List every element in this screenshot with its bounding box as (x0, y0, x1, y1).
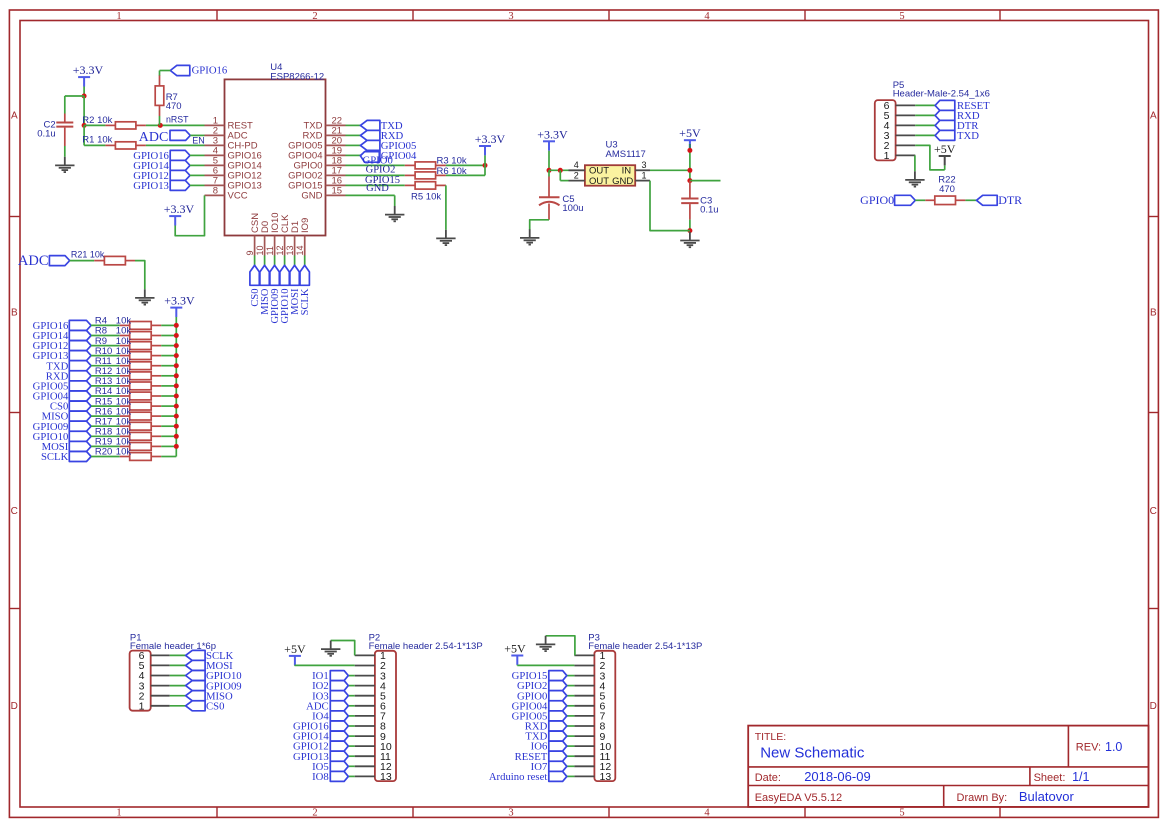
net flag GPIO12 (U4 left) (170, 170, 190, 180)
P3 pin 6 (574, 705, 594, 707)
svg-text:D: D (1150, 701, 1157, 712)
wire GPIO14 flag to pin (190, 164, 205, 166)
svg-text:R5 10k: R5 10k (411, 191, 441, 202)
U3 pin 1 GND (635, 180, 650, 182)
title block (748, 726, 1148, 807)
wire R20 to rail (161, 456, 176, 458)
wire R17 to rail (161, 425, 176, 427)
wire ADC to R21 (70, 260, 95, 262)
node junction rail row 1 (174, 323, 179, 328)
resistor R18 (120, 435, 130, 437)
P5 pin 5 (896, 114, 916, 116)
svg-text:12: 12 (275, 245, 285, 255)
wire bank +3.3V rail (175, 325, 177, 456)
svg-text:+3.3V: +3.3V (164, 294, 195, 308)
net flag TXD (P3) (567, 735, 575, 737)
resistor R7 (159, 75, 161, 86)
wire R12 to rail (161, 375, 176, 377)
wire +5V to P3 pin2 (516, 664, 518, 667)
P2 pin 13 (355, 775, 375, 777)
wire pin18 GPIO0 to R3 (346, 164, 405, 166)
svg-text:GPIO0: GPIO0 (860, 193, 894, 207)
svg-text:8: 8 (213, 185, 218, 196)
P2 pin 11 (355, 755, 375, 757)
svg-text:Drawn By:: Drawn By: (957, 792, 1008, 804)
svg-text:5: 5 (899, 11, 904, 22)
wire R1 to U4 pin3 (146, 144, 205, 146)
wire GPIO16 flag to pin (190, 154, 205, 156)
node junction rail row 12 (174, 434, 179, 439)
svg-text:GPIO13: GPIO13 (133, 180, 169, 192)
net flag MISO (P1) (170, 695, 186, 697)
P2 pin 12 (355, 765, 375, 767)
svg-text:Date:: Date: (755, 772, 781, 784)
wire R13 to rail (161, 385, 176, 387)
P3 pin 7 (574, 715, 594, 717)
svg-text:REV:: REV: (1076, 742, 1101, 754)
P2 pin 5 (355, 695, 375, 697)
P3 pin 8 (574, 725, 594, 727)
resistor R5 (405, 184, 415, 186)
U4 pin 4 GPIO16 (205, 154, 225, 156)
svg-text:OUT: OUT (589, 176, 609, 187)
wire pin17 GPIO02 to R6 (346, 174, 405, 176)
svg-text:13: 13 (380, 771, 392, 783)
P3 pin 4 (574, 685, 594, 687)
svg-text:2: 2 (312, 11, 317, 22)
svg-text:Bulatovor: Bulatovor (1019, 789, 1075, 804)
net flag IO7 (P3) (567, 765, 575, 767)
svg-text:1: 1 (642, 171, 647, 181)
resistor R21 (94, 260, 104, 262)
wire R10 to rail (161, 355, 176, 357)
svg-text:EasyEDA V5.5.12: EasyEDA V5.5.12 (755, 792, 842, 804)
svg-text:EN: EN (192, 136, 205, 146)
svg-text:+3.3V: +3.3V (475, 132, 506, 146)
P3 pin 3 (574, 675, 594, 677)
node junction rail row 5 (174, 363, 179, 368)
svg-text:AMS1117: AMS1117 (606, 149, 646, 160)
wire R16 to rail (161, 415, 176, 417)
wire pin16 GPIO15 to R5 (346, 184, 405, 186)
ground (P2 pin1) (330, 641, 332, 649)
wire R15 to rail (161, 405, 176, 407)
net flag CS0 (U4 bottom) (250, 265, 259, 285)
svg-text:+3.3V: +3.3V (73, 63, 104, 77)
resistor R8 (120, 335, 130, 337)
net flag SCLK (U4 bottom) (300, 265, 309, 285)
P2 pin 1 (355, 654, 375, 656)
svg-text:13: 13 (600, 771, 612, 783)
net flag GPIO14 (U4 left) (170, 160, 190, 170)
ruler ticks right (1149, 216, 1159, 218)
net flag TXD (P5) (915, 134, 935, 136)
P5 pin 2 (896, 144, 916, 146)
resistor R19 (120, 445, 130, 447)
wire R21 to ground (135, 261, 145, 290)
P1 pin 6 (151, 654, 170, 656)
svg-text:1: 1 (139, 701, 145, 713)
net flag IO8 (P2) (348, 775, 354, 777)
node junction (485,165) (483, 163, 488, 168)
svg-text:R1 10k: R1 10k (82, 135, 112, 146)
ruler ticks bottom (216, 807, 218, 817)
net flag GPIO13 (U4 left) (170, 180, 190, 190)
node junction (690,181) (687, 178, 692, 183)
wire R14 to rail (161, 395, 176, 397)
svg-text:+5V: +5V (679, 126, 701, 140)
node junction (549,170) (547, 168, 552, 173)
svg-text:3: 3 (508, 808, 513, 819)
wire C5 to ground (530, 220, 549, 230)
svg-text:nRST: nRST (166, 115, 189, 125)
net flag GPIO05 (P3) (567, 715, 575, 717)
wire junction down to R2 node (83, 96, 85, 125)
resistor R6 (405, 174, 415, 176)
net flag GPIO14 (P2) (348, 735, 354, 737)
regulator U3 AMS1117 body (585, 165, 635, 186)
P1 pin 1 (151, 705, 170, 707)
net flag RESET (P5) (915, 104, 935, 106)
svg-text:GND: GND (366, 183, 389, 194)
net flag GPIO16 (top) (170, 65, 190, 75)
svg-text:ESP8266-12: ESP8266-12 (270, 72, 324, 83)
svg-text:1: 1 (116, 11, 121, 22)
node junction (84,125) (82, 123, 87, 128)
wire SCLK to R20 (91, 456, 120, 458)
wire U4 pin8 VCC to +3.3V (175, 195, 204, 235)
node junction (690,150) (687, 148, 692, 153)
wire TXD to R11 (91, 365, 120, 367)
wire R4 to rail (161, 324, 176, 326)
net flag RESET (P3) (567, 755, 575, 757)
wire R11 to rail (161, 365, 176, 367)
U4 pin 11 IO10 (274, 236, 276, 256)
svg-text:470: 470 (166, 101, 182, 112)
resistor R2 (105, 124, 115, 126)
svg-text:R20: R20 (95, 447, 112, 458)
svg-text:Arduino reset: Arduino reset (489, 771, 547, 783)
node junction rail row 4 (174, 353, 179, 358)
resistor R15 (120, 405, 130, 407)
svg-text:New Schematic: New Schematic (760, 745, 865, 762)
svg-text:9: 9 (245, 250, 255, 255)
node junction rail row 7 (174, 383, 179, 388)
P2 pin 9 (355, 735, 375, 737)
svg-text:14: 14 (295, 245, 305, 255)
resistor R17 (120, 425, 130, 427)
svg-text:ADC: ADC (139, 130, 169, 145)
net flag GPIO16 (P2) (348, 725, 354, 727)
U4 pin 12 CLK (284, 236, 286, 256)
svg-text:3: 3 (508, 11, 513, 22)
svg-text:+5V: +5V (284, 642, 306, 656)
P3 pin 10 (574, 745, 594, 747)
node junction (690,170) (687, 168, 692, 173)
svg-text:2018-06-09: 2018-06-09 (804, 769, 871, 784)
wire R2 to U4 pin1 (146, 124, 205, 126)
net flag DTR (P5) (915, 124, 935, 126)
wire U3 pin3 to +5V rail (650, 169, 690, 171)
ruler ticks top (216, 10, 218, 21)
P3 pin 11 (574, 755, 594, 757)
wire P5 pin1 to ground (914, 155, 916, 171)
wire R9 to rail (161, 345, 176, 347)
net flag MISO (U4 bottom) (260, 265, 269, 285)
svg-text:SCLK: SCLK (41, 451, 69, 463)
P3 pin 2 (574, 665, 594, 667)
resistor R14 (120, 395, 130, 397)
P2 pin 8 (355, 725, 375, 727)
wire U4 pin 9 to flag (254, 256, 256, 266)
net flag GPIO04 (P3) (567, 705, 575, 707)
ground (P3 pin1) (545, 636, 547, 644)
svg-text:4: 4 (704, 808, 710, 819)
net flag IO5 (P2) (348, 765, 354, 767)
U4 pin 16 GPIO15 (326, 184, 346, 186)
wire R7 to nRST node (159, 116, 161, 125)
wire +3.3V stem to node (484, 155, 486, 165)
svg-text:R2 10k: R2 10k (82, 115, 112, 126)
wire GPIO13 flag to pin (190, 184, 205, 186)
U4 pin 8 VCC (205, 194, 225, 196)
P3 pin 1 (574, 654, 594, 656)
svg-text:D: D (11, 701, 18, 712)
wire U4 pin 10 to flag (264, 256, 266, 266)
net flag GPIO12 (P2) (348, 745, 354, 747)
wire GPIO13 to R10 (91, 355, 120, 357)
ground (C2) (64, 157, 66, 165)
connector P3 body (594, 651, 615, 781)
wire U3 pin1 GND routing (650, 181, 690, 231)
wire node to R2 (84, 124, 105, 126)
net flag GPIO0 (P3) (567, 695, 575, 697)
P2 pin 4 (355, 685, 375, 687)
svg-text:C: C (11, 506, 18, 517)
svg-text:1.0: 1.0 (1105, 740, 1122, 754)
wire GPIO10 to R18 (91, 435, 120, 437)
wire junction to C2 column (65, 95, 84, 97)
wire GPIO14 to R8 (91, 335, 120, 337)
connector P2 body (375, 651, 396, 781)
wire R6 up to +3.3V node (446, 174, 485, 176)
resistor R12 (120, 375, 130, 377)
ground (R21) (144, 289, 146, 297)
wire RXD to R12 (91, 375, 120, 377)
svg-text:IO8: IO8 (312, 771, 329, 783)
net flag RXD (P3) (567, 725, 575, 727)
wire MISO to R16 (91, 415, 120, 417)
ground (P5 pin1) (914, 171, 916, 179)
net flag DTR (R22) (977, 195, 998, 205)
svg-text:R21 10k: R21 10k (71, 249, 105, 259)
wire +3.3V stem down (83, 87, 85, 97)
node junction rail row 11 (174, 424, 179, 429)
svg-text:GPIO16: GPIO16 (192, 64, 228, 76)
net flag IO6 (P3) (567, 745, 575, 747)
svg-text:A: A (11, 111, 18, 122)
svg-text:Sheet:: Sheet: (1034, 772, 1066, 784)
P5 pin 1 (896, 154, 916, 156)
wire C2 to ground (64, 146, 66, 157)
node junction (560,170) (558, 168, 563, 173)
wire pin15 GND to ground (346, 194, 395, 196)
svg-text:DTR: DTR (998, 193, 1022, 207)
wire +3.3V column down to R1 row (83, 125, 85, 145)
svg-text:+3.3V: +3.3V (537, 127, 568, 141)
wire R22 to DTR (965, 199, 976, 201)
wire ADC flag to U4 pin2 (190, 134, 204, 136)
net flag IO1 (P2) (348, 675, 354, 677)
svg-text:Header-Male-2.54_1x6: Header-Male-2.54_1x6 (893, 89, 990, 100)
net flag GPIO15 (P3) (567, 675, 575, 677)
net flag IO3 (P2) (348, 695, 354, 697)
wire GPIO12 flag to pin (190, 174, 205, 176)
ruler ticks left (9, 216, 20, 218)
svg-text:0.1u: 0.1u (37, 129, 56, 140)
wire +5V rail stub right (690, 180, 721, 182)
node junction rail row 2 (174, 333, 179, 338)
P2 pin 3 (355, 675, 375, 677)
net flag SCLK (P1) (170, 654, 186, 656)
wire R5 down to ground (445, 185, 447, 229)
wire GPIO05 to R13 (91, 385, 120, 387)
wire GPIO0 to R22 (915, 199, 925, 201)
capacitor C2 (64, 114, 66, 122)
net flag GPIO09 (U4 bottom) (270, 265, 279, 285)
wire C3 to gnd node (689, 220, 691, 231)
wire GPIO09 to R17 (91, 425, 120, 427)
U3 pin 2 OUT (569, 180, 585, 182)
svg-text:B: B (11, 308, 18, 319)
P1 pin 3 (151, 685, 170, 687)
resistor R16 (120, 415, 130, 417)
net flag GPIO10 (P1) (170, 675, 186, 677)
wire node down to U3 pin2 (559, 170, 561, 180)
wire GPIO16 to R4 (91, 324, 120, 326)
ground (U4 pin15) (394, 206, 396, 214)
net flag GPIO13 (P2) (348, 755, 354, 757)
svg-text:TXD: TXD (957, 130, 979, 142)
resistor R11 (120, 365, 130, 367)
svg-text:4: 4 (704, 11, 710, 22)
wire +3.3V to OUT node (548, 151, 550, 171)
svg-text:+5V: +5V (504, 642, 526, 656)
U3 pin 4 OUT (569, 169, 585, 171)
resistor R9 (120, 345, 130, 347)
node junction rail row 8 (174, 394, 179, 399)
capacitor C5 (polarized) (548, 170, 550, 176)
U4 pin 5 GPIO14 (205, 164, 225, 166)
capacitor C3 (689, 181, 691, 198)
svg-text:100u: 100u (562, 203, 583, 214)
svg-text:1: 1 (116, 808, 121, 819)
net flag GPIO10 (U4 bottom) (280, 265, 289, 285)
svg-text:470: 470 (939, 184, 955, 195)
svg-text:13: 13 (285, 245, 295, 255)
net flag RXD (U4 right) (346, 134, 361, 136)
wire node to R1 (84, 144, 105, 146)
net flag Arduino reset (P3) (567, 775, 575, 777)
resistor R22 (925, 199, 935, 201)
P1 pin 5 (151, 664, 170, 666)
svg-text:IO9: IO9 (300, 218, 311, 233)
U4 pin 17 GPIO02 (326, 174, 346, 176)
node junction rail row 9 (174, 404, 179, 409)
P1 pin 4 (151, 675, 170, 677)
U4 pin 6 GPIO12 (205, 174, 225, 176)
net flag ADC (P2) (348, 705, 354, 707)
net flag GPIO04 (U4 right) (346, 154, 361, 156)
wire P3 pin1 to ground (546, 636, 575, 656)
wire MOSI to R19 (91, 445, 120, 447)
U4 pin 2 ADC (205, 134, 225, 136)
svg-text:VCC: VCC (228, 191, 248, 202)
U4 pin 20 GPIO05 (326, 144, 346, 146)
resistor R10 (120, 355, 130, 357)
P2 pin 7 (355, 715, 375, 717)
U4 pin 15 GND (326, 194, 346, 196)
svg-text:3: 3 (642, 160, 647, 170)
U4 pin 13 D1 (294, 236, 296, 256)
U3 pin 3 IN (635, 169, 650, 171)
P1 pin 2 (151, 695, 170, 697)
svg-text:10: 10 (255, 245, 265, 255)
svg-text:1: 1 (884, 150, 890, 162)
wire U4 pin 13 to flag (294, 256, 296, 266)
wire U4 pin 12 to flag (284, 256, 286, 266)
U4 pin 18 GPIO0 (326, 164, 346, 166)
resistor R13 (120, 385, 130, 387)
U4 pin 9 CSN (254, 236, 256, 256)
net flag TXD (U4 right) (346, 124, 361, 126)
svg-text:15: 15 (332, 185, 343, 196)
P2 pin 10 (355, 745, 375, 747)
P5 pin 4 (896, 124, 916, 126)
wire +5V rail (689, 144, 691, 150)
net flag MOSI (U4 bottom) (290, 265, 299, 285)
P3 pin 12 (574, 765, 594, 767)
P3 pin 9 (574, 735, 594, 737)
svg-text:GND: GND (612, 176, 633, 187)
resistor R1 (105, 144, 115, 146)
ground (C3) (689, 232, 691, 240)
svg-text:C: C (1150, 506, 1157, 517)
resistor R4 (120, 324, 130, 326)
svg-text:ADC: ADC (18, 253, 49, 269)
svg-text:TITLE:: TITLE: (755, 731, 787, 743)
wire +5V to P2 pin2 (295, 664, 355, 666)
U4 pin 10 D0 (264, 236, 266, 256)
svg-text:11: 11 (265, 246, 275, 255)
U4 pin 1 REST (205, 124, 225, 126)
net flag GPIO09 (P1) (170, 685, 186, 687)
net flag GPIO0 (pin18) (360, 152, 379, 163)
resistor R20 (120, 456, 130, 458)
node junction rail row 13 (174, 444, 179, 449)
P3 pin 13 (574, 775, 594, 777)
wire R18 to rail (161, 435, 176, 437)
wire R8 to rail (161, 335, 176, 337)
U4 pin 22 TXD (326, 124, 346, 126)
wire GPIO04 to R14 (91, 395, 120, 397)
svg-text:2: 2 (574, 171, 579, 181)
node junction rail row 3 (174, 343, 179, 348)
P3 pin 5 (574, 695, 594, 697)
net flag GPIO16 (U4 left) (170, 150, 190, 160)
net flag MOSI (P1) (170, 664, 186, 666)
svg-text:GND: GND (301, 191, 322, 202)
